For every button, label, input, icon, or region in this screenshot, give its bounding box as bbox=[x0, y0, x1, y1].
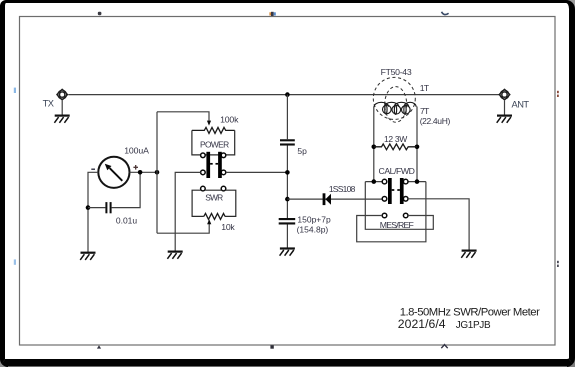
bottom shadow strip bbox=[8, 366, 567, 367]
capacitor C2 5p bbox=[280, 140, 295, 144]
wire C1 right lead up to meter plus line bbox=[112, 172, 141, 207]
handle top 3 bbox=[442, 12, 449, 15]
wire SW2 right common to ground bbox=[408, 199, 469, 251]
wire SW1 common right to divider node bbox=[226, 171, 288, 173]
ground meter minus bbox=[80, 253, 95, 260]
wire diode line bbox=[287, 198, 382, 200]
wire meter minus to ground rail bbox=[88, 172, 98, 252]
svg-text:2021/6/4: 2021/6/4 bbox=[398, 317, 446, 331]
connector J2 ANT bbox=[499, 89, 510, 100]
wire divider middle bbox=[286, 146, 288, 219]
wire SW2 cross link right-bottom to left-top bbox=[365, 182, 433, 230]
corner shade bottom-right bbox=[562, 354, 575, 367]
wire C1 left lead bbox=[88, 207, 105, 209]
svg-text:10k: 10k bbox=[221, 222, 235, 232]
switch SW2 actuator bbox=[392, 189, 395, 191]
svg-text:100uA: 100uA bbox=[124, 145, 149, 155]
wire SW2 top row right bbox=[408, 181, 426, 183]
handle right 1 bbox=[557, 91, 559, 93]
transformer T1 core dashed outer bbox=[373, 77, 415, 119]
svg-text:TX: TX bbox=[43, 99, 54, 109]
ground SW1 common bbox=[167, 252, 182, 259]
ground TX bbox=[54, 116, 69, 123]
wire SW2 top row left bbox=[365, 181, 382, 183]
wire ANT to ground bbox=[504, 101, 506, 116]
switch SW1 POWER/SWR contacts bbox=[201, 153, 226, 191]
ground SW2 bbox=[461, 251, 476, 258]
node main line to capacitor divider bbox=[285, 92, 290, 97]
transformer T1 secondary winding bbox=[374, 102, 416, 114]
box SWR bbox=[192, 190, 204, 216]
wire SW1 common left to ground bbox=[175, 172, 200, 251]
switch SW1 poles bbox=[206, 152, 210, 178]
box POWER bbox=[192, 130, 201, 155]
svg-text:12 3W: 12 3W bbox=[384, 134, 407, 144]
wire secondary right leg bbox=[416, 107, 418, 182]
handle bottom 1 bbox=[97, 345, 101, 348]
svg-text:CAL/FWD: CAL/FWD bbox=[379, 166, 415, 176]
label plus bbox=[133, 165, 138, 170]
wire divider bottom bbox=[286, 224, 288, 248]
switch SW2 CAL-FWD/MES-REF contacts bbox=[382, 179, 408, 218]
wire SWR wiper line bbox=[157, 223, 209, 234]
potentiometer VR2 10k zigzag bbox=[204, 213, 225, 219]
svg-text:MES/REF: MES/REF bbox=[380, 220, 414, 230]
svg-text:FT50-43: FT50-43 bbox=[381, 67, 412, 77]
wire meter plus line bbox=[130, 171, 158, 173]
potentiometer VR1 100k zigzag bbox=[192, 127, 235, 133]
handle top 2 bbox=[269, 12, 271, 15]
node divider / SW1 bbox=[285, 170, 290, 175]
capacitor C3 150p+7p bbox=[279, 219, 296, 223]
svg-text:7T: 7T bbox=[420, 106, 430, 116]
wire main TX-ANT line bbox=[68, 94, 499, 96]
wire secondary left leg bbox=[373, 107, 375, 182]
label minus bbox=[91, 168, 95, 170]
node wiper bus bbox=[155, 170, 160, 175]
resistor R1 12 3W bbox=[374, 144, 417, 150]
meter M1 body bbox=[98, 157, 129, 188]
transformer T1 core dashed inner bbox=[385, 87, 407, 123]
node R1 right bbox=[415, 145, 420, 150]
svg-text:POWER: POWER bbox=[200, 140, 229, 150]
corner shade bottom-left bbox=[0, 354, 13, 367]
svg-text:1T: 1T bbox=[420, 83, 430, 93]
handle bottom 2 bbox=[270, 345, 273, 348]
svg-text:0.01u: 0.01u bbox=[116, 215, 138, 225]
switch SW2 poles bbox=[388, 178, 392, 204]
svg-text:JG1PJB: JG1PJB bbox=[456, 320, 491, 331]
corner shade top-right bbox=[562, 0, 575, 13]
wire wiper bus vertical bbox=[156, 112, 158, 233]
wire VR1 wiper feed bbox=[157, 112, 209, 123]
wire divider top bbox=[286, 95, 288, 140]
node R1 left bbox=[372, 145, 377, 150]
wire TX to ground bbox=[61, 101, 63, 116]
node secondary right / SW2 bbox=[415, 179, 420, 184]
handle top 1 bbox=[98, 12, 102, 15]
connector J1 TX bbox=[57, 89, 68, 100]
ground divider bbox=[280, 249, 295, 256]
node meter minus / C1 bbox=[86, 205, 91, 210]
svg-text:SWR: SWR bbox=[205, 192, 223, 202]
meter M1 needle bbox=[110, 168, 123, 181]
diode D1 1SS108 bbox=[323, 193, 326, 205]
svg-text:100k: 100k bbox=[220, 114, 239, 124]
handle bottom 3 bbox=[441, 345, 447, 349]
node divider / diode bbox=[285, 197, 290, 202]
switch SW1 actuator bbox=[210, 163, 213, 165]
capacitor C1 0.01u bbox=[106, 202, 110, 213]
svg-text:(22.4uH): (22.4uH) bbox=[420, 116, 451, 126]
wire SW2 cross link left-bottom to right-top bbox=[357, 182, 426, 242]
svg-text:1SS108: 1SS108 bbox=[329, 184, 356, 194]
handle left 1 bbox=[14, 88, 16, 93]
handle right 2 bbox=[557, 261, 559, 263]
svg-text:(154.8p): (154.8p) bbox=[297, 224, 329, 234]
handle left 2 bbox=[14, 259, 16, 264]
svg-text:150p+7p: 150p+7p bbox=[297, 214, 331, 224]
ground ANT bbox=[497, 116, 512, 123]
svg-text:5p: 5p bbox=[297, 146, 307, 156]
node secondary left / SW2 bbox=[372, 179, 377, 184]
node C1 top bbox=[138, 170, 143, 175]
svg-text:ANT: ANT bbox=[512, 100, 530, 110]
